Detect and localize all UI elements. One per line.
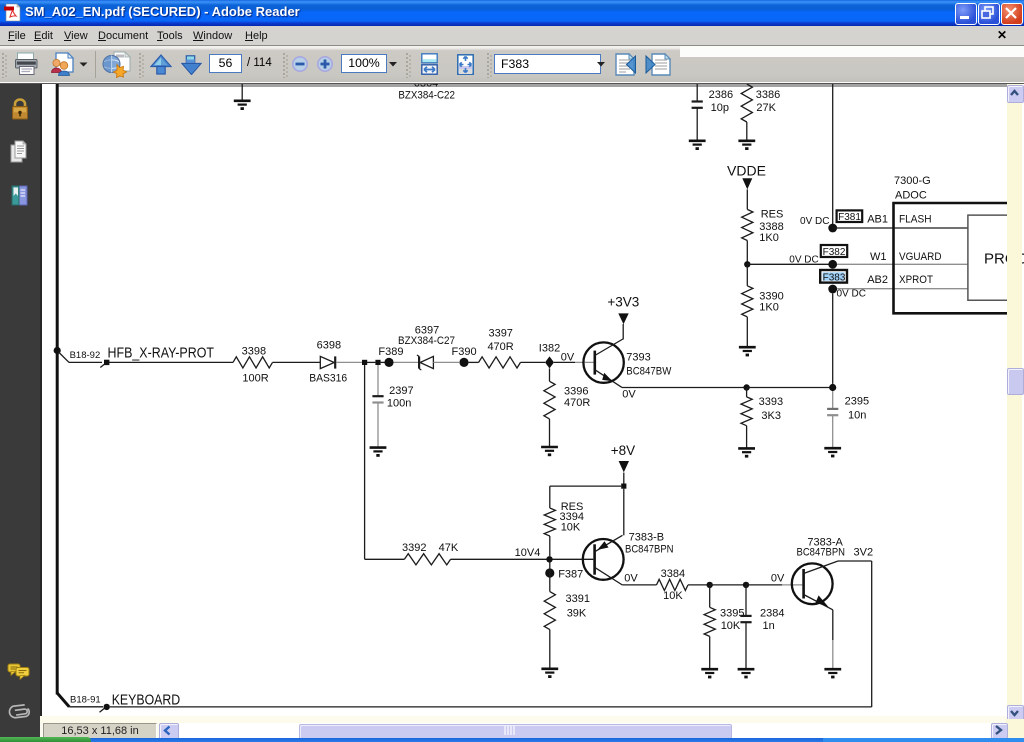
wire: I382 to resistor 3396 — [549, 368, 551, 381]
nav up arrow — [150, 54, 172, 75]
ground under 2397 — [370, 448, 387, 457]
svg-text:F383: F383 — [823, 272, 846, 283]
svg-text:3384: 3384 — [661, 568, 685, 580]
vertical scrollbar — [1007, 84, 1022, 723]
svg-text:BC847BPN: BC847BPN — [625, 544, 674, 556]
wire: 6398 to junction square (gray) — [336, 361, 362, 363]
svg-text:3386: 3386 — [756, 89, 780, 101]
wire: 3390 to ground — [746, 317, 748, 347]
window buttons — [955, 3, 977, 25]
print icon — [14, 51, 40, 77]
capacitor 2397 — [372, 396, 383, 402]
power VDDE symbol (triangle) and label — [742, 178, 752, 189]
wire: to base of 7383-A — [746, 584, 782, 586]
layers/bookmark icon — [9, 184, 30, 207]
fuse label box F383 (search highlighted) — [820, 270, 847, 283]
junction square at 3392 branch — [362, 360, 367, 365]
fit page icon — [457, 54, 474, 75]
svg-text:3390: 3390 — [759, 291, 783, 303]
wire: F389 to zener 6397 (gray) — [394, 361, 419, 363]
svg-text:KEYBOARD: KEYBOARD — [112, 692, 181, 708]
svg-text:6398: 6398 — [317, 339, 341, 351]
wire: 2397 to ground (gray) — [377, 403, 379, 448]
node F390 (junction dot) — [459, 358, 468, 367]
wire: 2395 top stem (gray) — [832, 391, 834, 409]
svg-text:470R: 470R — [564, 397, 590, 409]
svg-text:F381: F381 — [838, 212, 861, 223]
svg-text:0V: 0V — [561, 351, 575, 363]
svg-text:3396: 3396 — [564, 385, 588, 397]
comments icon — [7, 663, 32, 680]
wire: junction to F382 node — [747, 263, 832, 265]
resistor 3384 — [657, 579, 689, 590]
svg-text:AB1: AB1 — [867, 214, 888, 226]
fit width icon — [421, 53, 438, 75]
resistor 3397 — [479, 357, 521, 368]
capacitor 2386 — [692, 102, 703, 108]
transistor 7383-B BC847BPN (PNP, emitter to +8V) — [583, 535, 624, 585]
svg-text:10V4: 10V4 — [515, 547, 541, 559]
wire: 3395 top stem — [709, 585, 711, 607]
svg-text:F390: F390 — [452, 346, 477, 358]
fuse label box F382 — [821, 245, 847, 258]
wire: junction to capacitor 2397 (gray) — [377, 365, 379, 396]
svg-text:3393: 3393 — [759, 396, 783, 408]
wire: FLASH net vertical from page top — [832, 84, 834, 228]
wire: 3394 bottom to 10V4 junction — [549, 536, 551, 556]
ground under 2386 — [689, 141, 706, 150]
wire: KEYBOARD net vertical — [871, 561, 873, 707]
zoom box — [341, 54, 387, 73]
svg-text:3395: 3395 — [720, 607, 744, 619]
capacitor 2395 — [827, 409, 838, 415]
junction square at 2397 branch — [375, 360, 380, 365]
junction square at +8V rail — [621, 484, 626, 489]
svg-text:VDDE: VDDE — [727, 162, 766, 178]
wire: gray segment into base of 7383-A — [782, 584, 802, 586]
wire: connector bus B18 vertical frame line — [56, 84, 59, 695]
svg-text:0V DC: 0V DC — [800, 216, 829, 227]
svg-text:470R: 470R — [487, 341, 513, 353]
wire: 3395 to ground — [709, 636, 711, 669]
pages icon — [9, 140, 30, 163]
svg-text:100n: 100n — [387, 397, 411, 409]
svg-text:BC847BPN: BC847BPN — [797, 547, 846, 559]
ground top-left — [234, 101, 251, 110]
wire: F381 to FLASH pin — [833, 227, 968, 229]
wire: stem from page top to capacitor 2386 — [696, 84, 698, 102]
fuse label box F381 — [837, 210, 863, 223]
svg-text:2386: 2386 — [709, 89, 733, 101]
svg-text:7300-G: 7300-G — [894, 175, 931, 187]
node F381 (junction dot) — [828, 224, 837, 233]
ground under 3391 — [541, 669, 558, 678]
wire: F383 to XPROT pin (gray) — [837, 288, 968, 290]
resistor 3391 — [544, 592, 555, 630]
pdf file icon — [4, 3, 24, 24]
svg-text:3391: 3391 — [566, 593, 590, 605]
paperclip icon — [5, 697, 36, 728]
junction dot at 3395 top — [707, 582, 713, 588]
resistor 3398 — [233, 357, 273, 368]
status bar + horizontal scrollbar — [40, 716, 1024, 738]
svg-text:39K: 39K — [567, 608, 587, 620]
svg-text:1K0: 1K0 — [759, 232, 779, 244]
junction dot at 2395 top — [829, 384, 836, 391]
wire: vertical from HFB junction down to 3392 — [364, 365, 366, 559]
wire: 3386 to ground — [746, 122, 748, 140]
svg-text:1n: 1n — [763, 620, 775, 632]
resistor 3388 (RES 1K0) — [742, 209, 753, 240]
svg-text:VGUARD: VGUARD — [899, 251, 942, 263]
svg-text:3V2: 3V2 — [854, 547, 874, 559]
wire: 3392 to node 10V4 — [451, 558, 547, 560]
wire: 2386 to ground — [696, 108, 698, 140]
wire: 2384 top stem — [745, 585, 747, 616]
ground under 2395 — [824, 448, 841, 457]
svg-text:2384: 2384 — [760, 607, 784, 619]
node I382 (diamond junction) — [545, 356, 554, 368]
wire: 7383-B collector to resistor 3384 — [622, 584, 656, 586]
ground under 3393 — [738, 448, 755, 457]
wire: junction to node F389 — [381, 361, 385, 363]
svg-text:0V DC: 0V DC — [789, 255, 818, 266]
wire: 3390 top — [746, 264, 748, 286]
wire: 7383-A collector to corner — [838, 560, 872, 562]
svg-text:10n: 10n — [848, 409, 866, 421]
svg-text:AB2: AB2 — [867, 274, 888, 286]
wire: VDDE to resistor 3388 — [746, 189, 748, 209]
svg-text:10K: 10K — [561, 522, 581, 534]
find next — [643, 52, 677, 77]
wire: 2395 to ground (gray) — [832, 415, 834, 447]
svg-text:F382: F382 — [823, 247, 846, 258]
zoom in button — [317, 56, 333, 72]
svg-text:2395: 2395 — [845, 395, 869, 407]
wire: I382 to base of 7393 — [554, 361, 575, 363]
wire: 2384 to ground — [745, 622, 747, 669]
wire: 3393 top stem — [746, 388, 748, 397]
node F382 (junction dot) — [828, 260, 837, 269]
svg-text:+3V3: +3V3 — [607, 295, 639, 310]
connector pin B18-91 stub (frame diagonal, arrow, node) — [57, 693, 110, 712]
wire: 6397 to node F390 (gray) — [433, 361, 459, 363]
svg-text:HFB_X-RAY-PROT: HFB_X-RAY-PROT — [108, 345, 215, 361]
svg-text:27K: 27K — [756, 102, 776, 114]
ground under 3396 — [541, 447, 558, 456]
junction dot at 3393 top — [743, 384, 749, 390]
resistor 3393 — [741, 397, 752, 426]
junction dot at 3388/3390 — [744, 261, 750, 267]
svg-text:3397: 3397 — [488, 327, 512, 339]
svg-text:10K: 10K — [663, 590, 683, 602]
wire: junction to junction — [367, 361, 375, 363]
svg-text:XPROT: XPROT — [899, 274, 933, 286]
wire: 10V4 junction to base of 7383-B — [553, 558, 594, 560]
transistor 7393 BC847BW (NPN) — [583, 339, 623, 387]
svg-text:BAS316: BAS316 — [309, 372, 347, 384]
svg-text:BZX384-C22: BZX384-C22 — [398, 90, 455, 102]
resistor 3394 (RES 10K) — [544, 508, 555, 536]
svg-text:B18-92: B18-92 — [70, 350, 101, 361]
wire: 7393 emitter to 0V rail — [622, 387, 747, 389]
taskbar sliver — [0, 738, 1024, 742]
wire: 3394 top stem — [549, 486, 551, 508]
wire: gray segment into base of 7393 — [575, 361, 594, 363]
svg-text:10K: 10K — [721, 620, 741, 632]
wire: +8V down to 7383-B emitter — [623, 489, 625, 536]
transistor 7383-A BC847BPN (NPN) — [792, 561, 838, 610]
svg-text:2397: 2397 — [389, 385, 413, 397]
svg-text:B18-91: B18-91 — [70, 694, 101, 705]
wire: 10V4 to F387 to 3391 — [549, 562, 551, 591]
ground under 7383-A emitter — [824, 669, 841, 678]
resistor 3390 — [742, 286, 753, 317]
wire: stem from page top to ground (top left) — [241, 84, 243, 100]
find box — [494, 54, 601, 74]
wire: KEYBOARD net horizontal — [110, 706, 872, 708]
wire: 7383-A emitter to ground (gray) — [832, 640, 834, 669]
padlock icon — [10, 98, 30, 121]
wire: XPROT net vertical down to 0V rail — [832, 293, 834, 384]
resistor 3392 — [404, 554, 450, 565]
wire: 3398 to diode 6398 — [273, 361, 321, 363]
node F389 (junction dot) — [384, 358, 393, 367]
node F387 (junction dot) — [545, 568, 554, 577]
ground under 3390 — [739, 347, 756, 356]
wire: 3384 to junction at 3395 — [688, 584, 710, 586]
wire: 7383-A emitter down — [832, 610, 834, 640]
power +8V symbol (triangle) and stem — [619, 461, 629, 484]
wire: F390 to resistor 3397 — [469, 361, 479, 363]
wire: 3388 to junction — [746, 241, 748, 265]
svg-text:I382: I382 — [539, 342, 560, 354]
svg-text:ADOC: ADOC — [895, 189, 927, 201]
svg-text:3K3: 3K3 — [761, 410, 781, 422]
IC inner PROC box (clipped at right) — [968, 215, 1007, 300]
email/share icon — [49, 50, 79, 78]
wire: 3391 to ground — [549, 630, 551, 669]
svg-text:7393: 7393 — [626, 351, 650, 363]
svg-text:RES: RES — [761, 209, 784, 221]
junction dot at 2384 top — [743, 582, 749, 588]
junction dot 10V4 — [546, 556, 552, 562]
wire: F382 to VGUARD pin (gray) — [837, 263, 968, 265]
wire: 0V rail to XPROT net vertical — [747, 387, 833, 389]
ground under 3395 — [701, 669, 718, 678]
svg-text:F389: F389 — [378, 346, 403, 358]
svg-text:0V: 0V — [771, 573, 785, 585]
svg-text:+8V: +8V — [611, 443, 635, 458]
svg-text:0V DC: 0V DC — [837, 288, 866, 299]
svg-text:47K: 47K — [439, 542, 459, 554]
svg-text:BZX384-C27: BZX384-C27 — [398, 335, 455, 347]
wire: 3393 to ground — [746, 426, 748, 448]
nav down arrow — [181, 55, 203, 75]
wire: +8V rail horizontal to 3394 — [550, 485, 621, 487]
node F383 (junction dot) — [828, 285, 837, 294]
svg-text:BC847BW: BC847BW — [626, 365, 672, 377]
wire: HFB_X-RAY-PROT from B18-92 to resistor 3398 — [109, 361, 233, 363]
toolbar icons — [2, 53, 7, 78]
zoom out button — [292, 56, 308, 72]
svg-text:F387: F387 — [558, 568, 583, 580]
wire: corner to resistor 3392 — [365, 558, 405, 560]
power +3V3 symbol (triangle) and stem — [618, 313, 628, 339]
svg-text:0V: 0V — [624, 573, 638, 585]
find previous — [614, 52, 648, 77]
ground under 3386 — [738, 141, 755, 150]
svg-text:3392: 3392 — [402, 542, 426, 554]
connector pin B18-92 stub (diagonal, arrow and terminal square) — [54, 347, 110, 368]
svg-text:0V: 0V — [622, 389, 636, 401]
svg-text:1K0: 1K0 — [759, 302, 779, 314]
wire: junction to junction at 2384 — [710, 584, 746, 586]
svg-text:3398: 3398 — [242, 346, 266, 358]
svg-text:10p: 10p — [711, 102, 729, 114]
resistor 3386 (clipped at top) — [741, 84, 752, 122]
ground under 2384 — [738, 669, 755, 678]
svg-text:FLASH: FLASH — [899, 214, 932, 226]
wire: 3396 to ground — [549, 419, 551, 447]
web capture icon — [102, 51, 133, 78]
resistor 3396 — [544, 381, 555, 419]
svg-text:100R: 100R — [242, 372, 268, 384]
capacitor 2384 — [740, 616, 751, 622]
IC 7300-G ADOC outer box (clipped at right) — [894, 203, 1008, 313]
resistor 3395 — [704, 607, 715, 636]
zener diode 6397 BZX384-C27 (cathode bar left, pointing left) — [417, 355, 434, 370]
wire: 3397 to node I382 — [521, 361, 546, 363]
svg-text:7383-B: 7383-B — [629, 531, 664, 543]
svg-text:W1: W1 — [870, 251, 887, 263]
diode 6398 BAS316 (anode left, cathode bar right) — [320, 356, 335, 368]
page number box — [209, 54, 242, 73]
